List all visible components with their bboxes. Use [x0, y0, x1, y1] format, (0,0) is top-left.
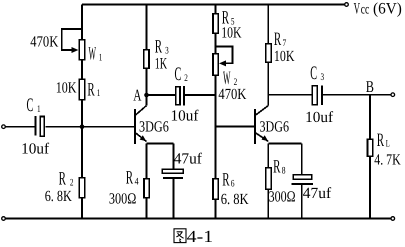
svg-text:47uf: 47uf [303, 185, 332, 202]
svg-text:R: R [222, 170, 229, 191]
svg-text:2: 2 [184, 73, 188, 84]
svg-text:6: 6 [231, 179, 235, 190]
svg-text:10uf: 10uf [305, 109, 334, 126]
svg-text:1K: 1K [155, 56, 168, 73]
svg-text:8: 8 [282, 165, 286, 176]
svg-text:4-1: 4-1 [187, 227, 214, 246]
svg-text:1: 1 [97, 88, 101, 99]
svg-text:V: V [354, 1, 361, 18]
svg-text:R: R [274, 29, 281, 50]
svg-text:C: C [310, 63, 317, 84]
svg-text:10K: 10K [274, 48, 295, 65]
svg-text:4. 7K: 4. 7K [374, 151, 401, 168]
svg-text:A: A [133, 85, 141, 104]
svg-text:10K: 10K [56, 80, 77, 97]
svg-text:3DG6: 3DG6 [260, 119, 290, 136]
svg-text:W: W [89, 44, 97, 65]
svg-text:2: 2 [70, 178, 74, 189]
svg-text:10uf: 10uf [21, 140, 50, 157]
svg-text:R: R [59, 169, 66, 190]
svg-text:4: 4 [135, 177, 139, 188]
svg-text:W: W [223, 68, 231, 89]
svg-text:470K: 470K [30, 33, 59, 50]
svg-text:C: C [175, 64, 182, 85]
svg-text:1: 1 [37, 104, 41, 115]
svg-text:5: 5 [231, 16, 235, 27]
svg-text:6. 8K: 6. 8K [45, 188, 73, 205]
svg-text:3DG6: 3DG6 [139, 118, 169, 135]
svg-text:1: 1 [99, 52, 103, 63]
svg-text:C: C [27, 95, 34, 116]
svg-text:(6V): (6V) [373, 1, 402, 18]
svg-text:R: R [377, 130, 384, 151]
svg-text:300Ω: 300Ω [269, 189, 296, 206]
svg-text:R: R [87, 79, 94, 100]
svg-text:R: R [155, 36, 162, 57]
svg-text:47uf: 47uf [174, 150, 203, 167]
svg-text:10uf: 10uf [171, 108, 200, 125]
svg-text:cc: cc [361, 3, 370, 18]
svg-text:3: 3 [165, 45, 169, 56]
svg-text:R: R [222, 7, 229, 28]
svg-text:L: L [386, 139, 390, 150]
svg-text:3: 3 [321, 72, 325, 83]
svg-text:2: 2 [234, 77, 238, 88]
svg-text:B: B [366, 77, 374, 96]
svg-text:R: R [126, 168, 133, 189]
svg-text:7: 7 [283, 38, 287, 49]
svg-text:300Ω: 300Ω [109, 191, 136, 208]
svg-text:6. 8K: 6. 8K [221, 191, 250, 208]
svg-text:R: R [273, 156, 280, 177]
